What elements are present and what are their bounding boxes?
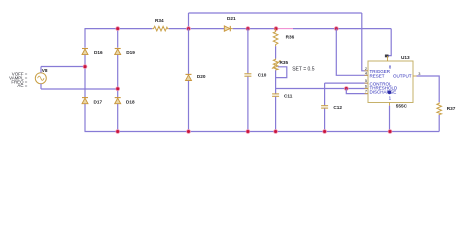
diode D20: [186, 74, 206, 80]
svg-text:D17: D17: [94, 99, 103, 104]
svg-text:R37: R37: [447, 106, 456, 111]
wire reset feed from rail to 555 pin 4: [336, 29, 368, 76]
svg-text:R34: R34: [155, 18, 164, 23]
node right column top: [116, 27, 120, 31]
wire D19 anode to node: [117, 55, 119, 98]
svg-text:RESET: RESET: [370, 73, 385, 78]
wire V8 bottom to bridge right node: [41, 88, 118, 90]
wire V8 plus stub up: [40, 67, 42, 73]
resistor R36: [273, 29, 294, 47]
wire R36 to R35: [275, 46, 277, 58]
node R34 right junction: [187, 27, 191, 31]
node bottom rail C10: [246, 130, 250, 134]
wire C11 bottom to rail: [275, 97, 277, 132]
op-amp U13 555 timer box: [365, 55, 421, 108]
wire pink highlighted segment of rail: [276, 28, 293, 30]
wire D16 anode to node: [84, 55, 86, 98]
wire D20 anode to bottom rail: [188, 81, 190, 132]
wire left drop of top rail to node at R34 right: [188, 13, 190, 29]
diode D16: [82, 49, 103, 56]
svg-text:DISCHARGE: DISCHARGE: [370, 90, 397, 95]
wire discharge jog: [346, 89, 368, 94]
node V8+ junction: [83, 65, 87, 69]
node bottom rail C11: [274, 130, 278, 134]
svg-text:R35: R35: [280, 60, 289, 65]
node bottom rail D20: [187, 130, 191, 134]
wire C10 column upper: [247, 29, 249, 74]
wire bridge left column upper: [84, 29, 86, 48]
svg-text:7: 7: [365, 89, 367, 94]
wire main rail y=28.6 bridge top to R34: [85, 28, 153, 30]
resistor R35 variable: [272, 59, 315, 73]
node R36 top junction: [274, 27, 278, 31]
node threshold discharge junction: [344, 87, 348, 91]
wire rail to VCC corner: [293, 28, 391, 30]
svg-text:R36: R36: [286, 34, 295, 39]
svg-text:D16: D16: [94, 50, 103, 55]
wire right drop of top rail down to trigger pin jog: [362, 13, 368, 71]
svg-text:V8: V8: [42, 68, 48, 73]
wire R35 bottom to C11: [275, 70, 277, 93]
wire top rail net from R34 node to trigger drop: [189, 12, 362, 14]
node bottom rail C12: [323, 130, 327, 134]
capacitor C12: [321, 105, 342, 110]
wire VCC drop to 555 pin 8: [388, 29, 392, 56]
capacitor C11: [272, 94, 293, 99]
node bottom rail bridge right: [116, 130, 120, 134]
diode D17: [82, 98, 102, 105]
pin stubs: [365, 70, 369, 72]
svg-text:D19: D19: [126, 50, 135, 55]
resistor R37: [437, 102, 456, 115]
wire D20 column upper: [188, 29, 190, 74]
wire output net to R37: [417, 76, 440, 102]
svg-text:U13: U13: [401, 55, 410, 60]
svg-text:AC =: AC =: [17, 83, 27, 88]
wire C10 bottom to rail: [247, 77, 249, 132]
wire C12 column upper: [324, 83, 326, 105]
svg-text:OUTPUT: OUTPUT: [393, 73, 412, 78]
gnd pin bubble: [388, 90, 392, 94]
wire bridge right column upper: [117, 29, 119, 48]
wire D17 anode to bottom rail: [84, 104, 86, 132]
svg-text:C11: C11: [284, 94, 293, 99]
source V8: [35, 68, 48, 84]
wire R34 right to D21 anode: [169, 28, 224, 30]
capacitor C10: [244, 72, 266, 77]
node C10 top junction: [246, 27, 250, 31]
wire D18 anode to bottom rail: [117, 104, 119, 132]
wire V8 top to bridge left node: [41, 66, 85, 68]
wire C12 bottom to rail: [324, 109, 326, 132]
svg-text:SET = 0.5: SET = 0.5: [292, 66, 315, 72]
wire control net corner from C12 to 555: [325, 82, 368, 84]
resistor R34: [152, 26, 169, 31]
diode D21: [224, 16, 236, 31]
diode D18: [115, 98, 135, 105]
svg-text:C10: C10: [258, 72, 267, 77]
V8 parameter text: [9, 72, 28, 89]
diode D19: [115, 49, 136, 56]
wire D21 cathode to C10 node: [233, 28, 276, 30]
svg-text:D21: D21: [227, 16, 236, 21]
svg-text:5: 5: [365, 78, 367, 83]
wire threshold net from C11 column to 555: [276, 88, 368, 90]
wire R35 wiper to bottom: [276, 67, 287, 78]
svg-text:D20: D20: [197, 74, 206, 79]
wire V8 minus stub down: [40, 84, 42, 89]
wire 555 gnd pin to bottom rail: [389, 106, 391, 132]
junction blob at pin 8 jog: [385, 55, 389, 58]
svg-text:D18: D18: [126, 99, 135, 104]
node bottom rail 555 gnd: [388, 130, 392, 134]
node reset feed junction: [334, 27, 338, 31]
wire bottom ground rail: [85, 131, 440, 133]
svg-text:C12: C12: [333, 105, 342, 110]
wire R37 bottom to rail corner: [438, 115, 440, 132]
node V8- junction: [116, 87, 120, 91]
svg-text:555C: 555C: [396, 103, 408, 108]
